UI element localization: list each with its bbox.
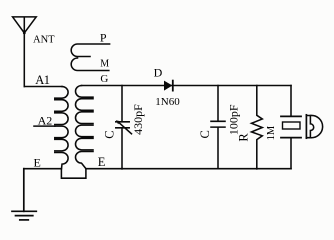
transformer left winding L1a (taps A1,A2,E) (55, 87, 68, 169)
junction: variable cap to bottom rail (121, 168, 123, 170)
coil L2 (taps P,M) (71, 44, 109, 71)
svg-text:G: G (100, 73, 108, 85)
svg-text:E: E (34, 155, 41, 169)
wire: A2 tap lead (34, 125, 55, 127)
svg-text:1N60: 1N60 (155, 96, 180, 108)
svg-text:R: R (237, 133, 251, 142)
ground (12, 169, 36, 220)
resistor R 1M (252, 86, 263, 170)
wire: bottom rail E with dip under transformer (24, 169, 291, 179)
earphone B (crystal earphone) (281, 86, 323, 169)
svg-text:C: C (198, 130, 212, 138)
svg-text:D: D (154, 65, 163, 79)
wire: antenna stem down to A1 corner (23, 33, 25, 87)
diode D 1N60 (164, 81, 173, 91)
svg-text:1M: 1M (266, 125, 277, 140)
svg-text:P: P (100, 31, 107, 45)
capacitor C 100pF (211, 86, 225, 169)
svg-text:ANT: ANT (33, 35, 55, 46)
svg-text:M: M (100, 59, 109, 70)
svg-text:A1: A1 (35, 73, 50, 87)
svg-text:E: E (98, 155, 106, 169)
wire: top rail G from winding to right side (82, 85, 292, 87)
svg-text:430pF: 430pF (131, 104, 145, 135)
transformer right winding L1b (G to E) (75, 86, 93, 169)
svg-text:C: C (103, 130, 117, 138)
wire: A1 lead horizontal to left winding (24, 86, 62, 88)
antenna ANT (13, 17, 37, 35)
svg-text:100pF: 100pF (226, 104, 240, 135)
variable capacitor C 430pF (116, 86, 132, 169)
svg-text:A2: A2 (38, 114, 53, 128)
